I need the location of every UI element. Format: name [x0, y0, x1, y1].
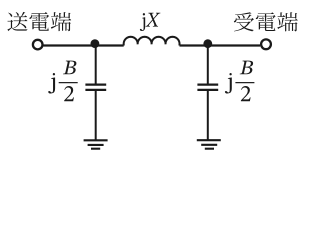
label: jB/2 (left), fraction bar	[59, 82, 78, 83]
label: jB/2 (left), denominator 2	[64, 86, 74, 101]
terminal T2 (receiving end, open circle)	[261, 39, 271, 49]
node B (junction dot, right)	[203, 39, 212, 48]
label: 送電端 (sending end)	[7, 12, 71, 31]
capacitor C1 (left shunt jB/2)	[85, 85, 106, 90]
label: 受電端 (receiving end)	[234, 12, 298, 31]
capacitor C2 (right shunt jB/2)	[197, 85, 218, 90]
label: jB/2 (right), letter j	[225, 73, 232, 93]
wire: T1 to node A	[43, 44, 123, 46]
wire: node B down to capacitor C2	[207, 43, 209, 84]
wire: node A down to capacitor C1	[95, 43, 97, 84]
label: jB/2 (right), numerator B (italic)	[240, 61, 253, 75]
ground (left)	[84, 140, 108, 148]
ground (right)	[197, 140, 221, 149]
label: jB/2 (right), denominator 2	[241, 86, 251, 101]
wire: inductor to node B	[180, 44, 261, 46]
node A (junction dot, left)	[91, 39, 100, 48]
label: jB/2 (left), letter j	[48, 73, 55, 93]
wire: C2 to ground	[207, 91, 209, 140]
wire: C1 to ground	[95, 91, 97, 140]
label: jX, letter X (italic)	[146, 13, 161, 27]
terminal T1 (sending end, open circle)	[33, 40, 43, 50]
label: jX, letter j	[140, 13, 145, 31]
label: jB/2 (right), fraction bar	[235, 82, 254, 83]
inductor jX (series reactance coil)	[124, 37, 180, 46]
label: jB/2 (left), numerator B (italic)	[63, 61, 76, 75]
